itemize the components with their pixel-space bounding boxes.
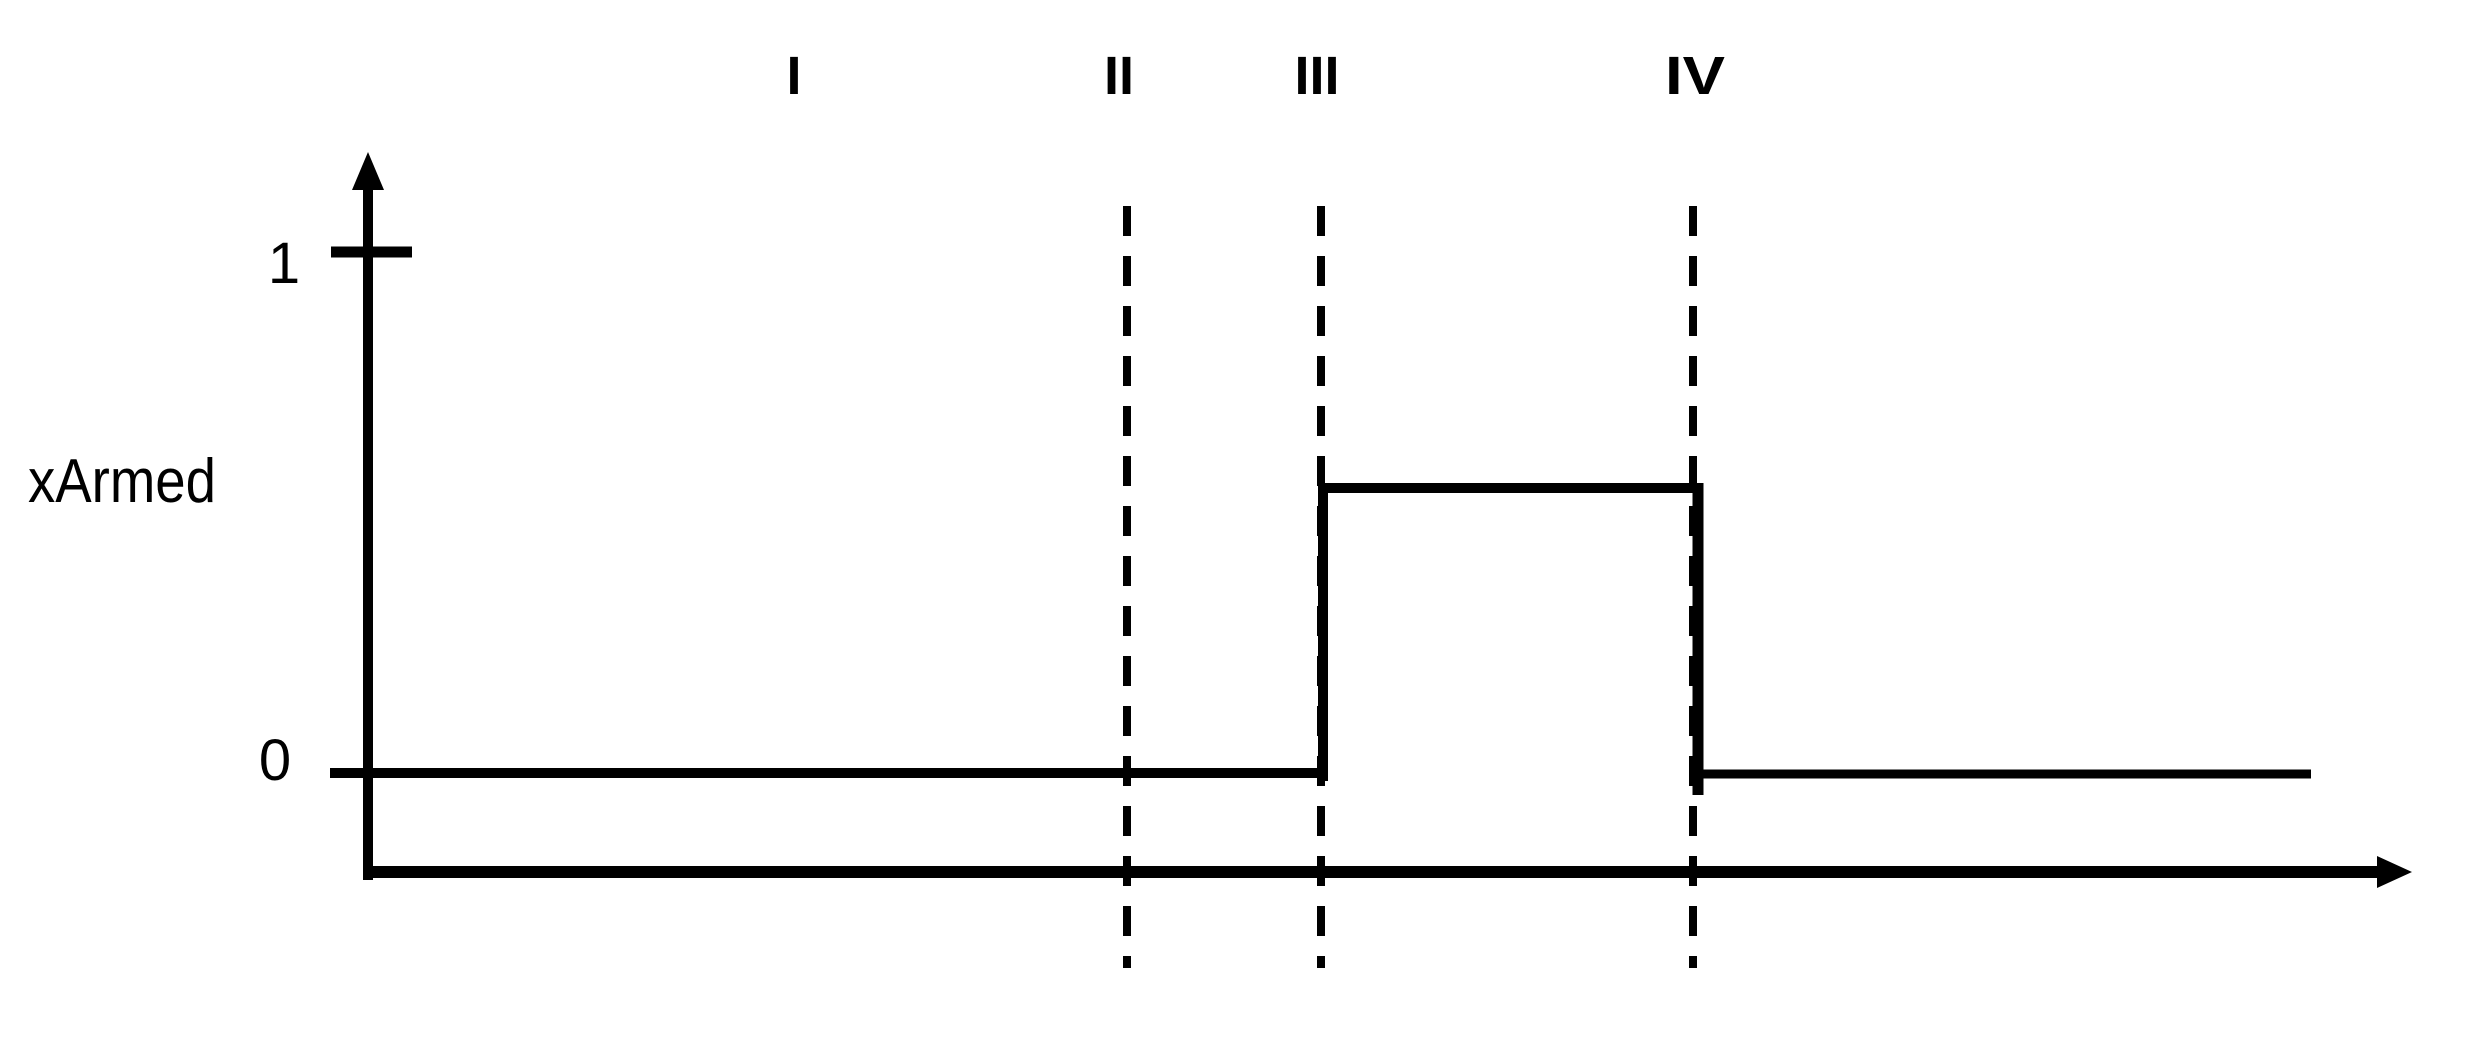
svg-text:xArmed: xArmed [28, 447, 216, 516]
y-axis tick at 1 [331, 247, 412, 258]
svg-text:1: 1 [268, 231, 300, 296]
signal rising edge at III [1318, 483, 1328, 781]
x-axis arrowhead [2377, 856, 2412, 888]
signal low segment after IV [1698, 770, 2311, 779]
signal falling edge at IV [1693, 483, 1704, 795]
svg-text:0: 0 [259, 728, 291, 793]
signal xArmed low segment before III [330, 768, 1328, 778]
dashed marker line III [1317, 206, 1325, 968]
svg-text:IV: IV [1665, 46, 1725, 106]
y-axis arrowhead [352, 152, 384, 190]
svg-text:I: I [786, 46, 801, 106]
dashed marker line II [1123, 206, 1131, 968]
y-axis line [363, 186, 373, 880]
dashed marker line IV [1689, 206, 1697, 968]
x-axis line [363, 866, 2380, 878]
svg-text:II: II [1104, 46, 1134, 106]
svg-text:III: III [1294, 46, 1339, 106]
signal high segment III to IV [1318, 483, 1703, 493]
